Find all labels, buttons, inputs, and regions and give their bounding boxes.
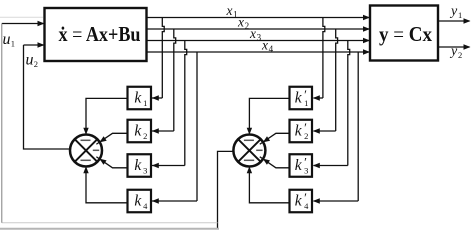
svg-text:x: x [249,26,256,41]
gain k4 [128,190,152,213]
wire tap from x1 down to gain k1 [152,18,164,101]
svg-text:2: 2 [458,50,462,60]
svg-text:k: k [134,90,142,107]
wire x3 from plant to output block [147,38,371,43]
svg-text:3: 3 [304,166,308,176]
svg-text:x: x [226,3,233,18]
wire bottom feedback rail [2,222,218,224]
wire left feedback rail up to u1 [1,24,3,223]
svg-text:2: 2 [143,131,147,141]
svg-text:1: 1 [143,98,147,108]
svg-text:k: k [295,123,303,140]
gain k&#8242;1 [290,87,313,110]
wire y2 output [438,44,471,49]
wire tap from x3 down to gain k3 [152,41,187,169]
plant block U1: state equation dx/dt = Ax + Bu [45,8,147,61]
output block U2: y = Cx [370,6,438,61]
svg-text:k: k [134,123,142,140]
svg-text:1: 1 [233,9,238,19]
wire k1 output into S1 top [83,98,127,134]
wire tap from x3 down to gain k&#8242;3 [313,41,350,169]
svg-text:2: 2 [304,131,308,141]
gain k2 [128,120,152,143]
wire S1 output up to u2 [24,45,71,149]
svg-text:u: u [3,31,11,48]
faint artifact line [0,16,43,18]
svg-text:1: 1 [458,10,462,20]
wire k4 output into S1 bottom [83,166,127,203]
svg-text:1: 1 [304,98,308,108]
wire k&#8242;3 output into S2 lower-right [260,157,290,168]
svg-text:2: 2 [245,21,250,31]
wire tap from x2 down to gain k2 [152,29,176,134]
node y1 label [449,4,462,20]
svg-text:ẋ = Ax+Bu: ẋ = Ax+Bu [59,22,141,46]
node x4 label [261,38,274,54]
svg-text:y: y [449,4,458,19]
wire S2 output down to bottom rail [218,151,234,228]
wire k&#8242;1 output into S2 top [247,98,290,134]
svg-text:k: k [295,193,303,210]
wire x2 from plant to output block [147,26,371,31]
node x1 label [226,3,238,19]
wire tap from x1 down to gain k&#8242;1 [313,18,325,101]
wire x1 from plant to output block [147,15,371,20]
svg-text:k: k [134,193,142,210]
svg-text:4: 4 [143,201,148,211]
svg-text:x: x [261,38,268,53]
wire u2 input into plant [24,42,45,47]
svg-text:k: k [134,157,142,174]
svg-text:y: y [449,44,458,59]
node x3 label [249,26,262,42]
wire k2 output into S1 upper-right [96,133,127,144]
svg-text:k: k [295,90,303,107]
svg-text:2: 2 [34,59,38,69]
svg-text:u: u [26,52,34,69]
svg-text:y = Cx: y = Cx [379,22,432,46]
gain k&#8242;4 [290,190,313,213]
gain k&#8242;3 [290,154,313,177]
node u1 label [3,31,15,49]
wire k3 output into S1 lower-right [96,157,127,168]
svg-text:1: 1 [11,39,15,49]
gray bottom border artifact [0,228,219,230]
svg-text:3: 3 [257,32,262,42]
svg-text:3: 3 [143,166,147,176]
gain k1 [128,87,152,110]
gain k3 [128,154,152,177]
gain k&#8242;2 [290,120,313,143]
wire u1 input into plant [2,21,45,26]
wire tap from x4 down to gain k&#8242;4 [313,52,358,204]
svg-text:4: 4 [269,44,274,54]
node y2 label [449,44,462,60]
node u2 label [26,52,38,70]
svg-text:k: k [295,157,303,174]
summing junction S2 [233,135,265,167]
wire y1 output [438,18,471,23]
wire x4 from plant to output block [147,49,371,54]
svg-text:4: 4 [304,201,309,211]
svg-text:x: x [237,15,244,30]
wire k&#8242;4 output into S2 bottom [247,166,290,203]
wire tap from x2 down to gain k&#8242;2 [313,29,338,134]
wire k&#8242;2 output into S2 upper-right [260,133,290,144]
wire tap from x4 down to gain k4 [152,52,197,204]
node x2 label [237,15,249,31]
summing junction S1 [70,135,102,167]
